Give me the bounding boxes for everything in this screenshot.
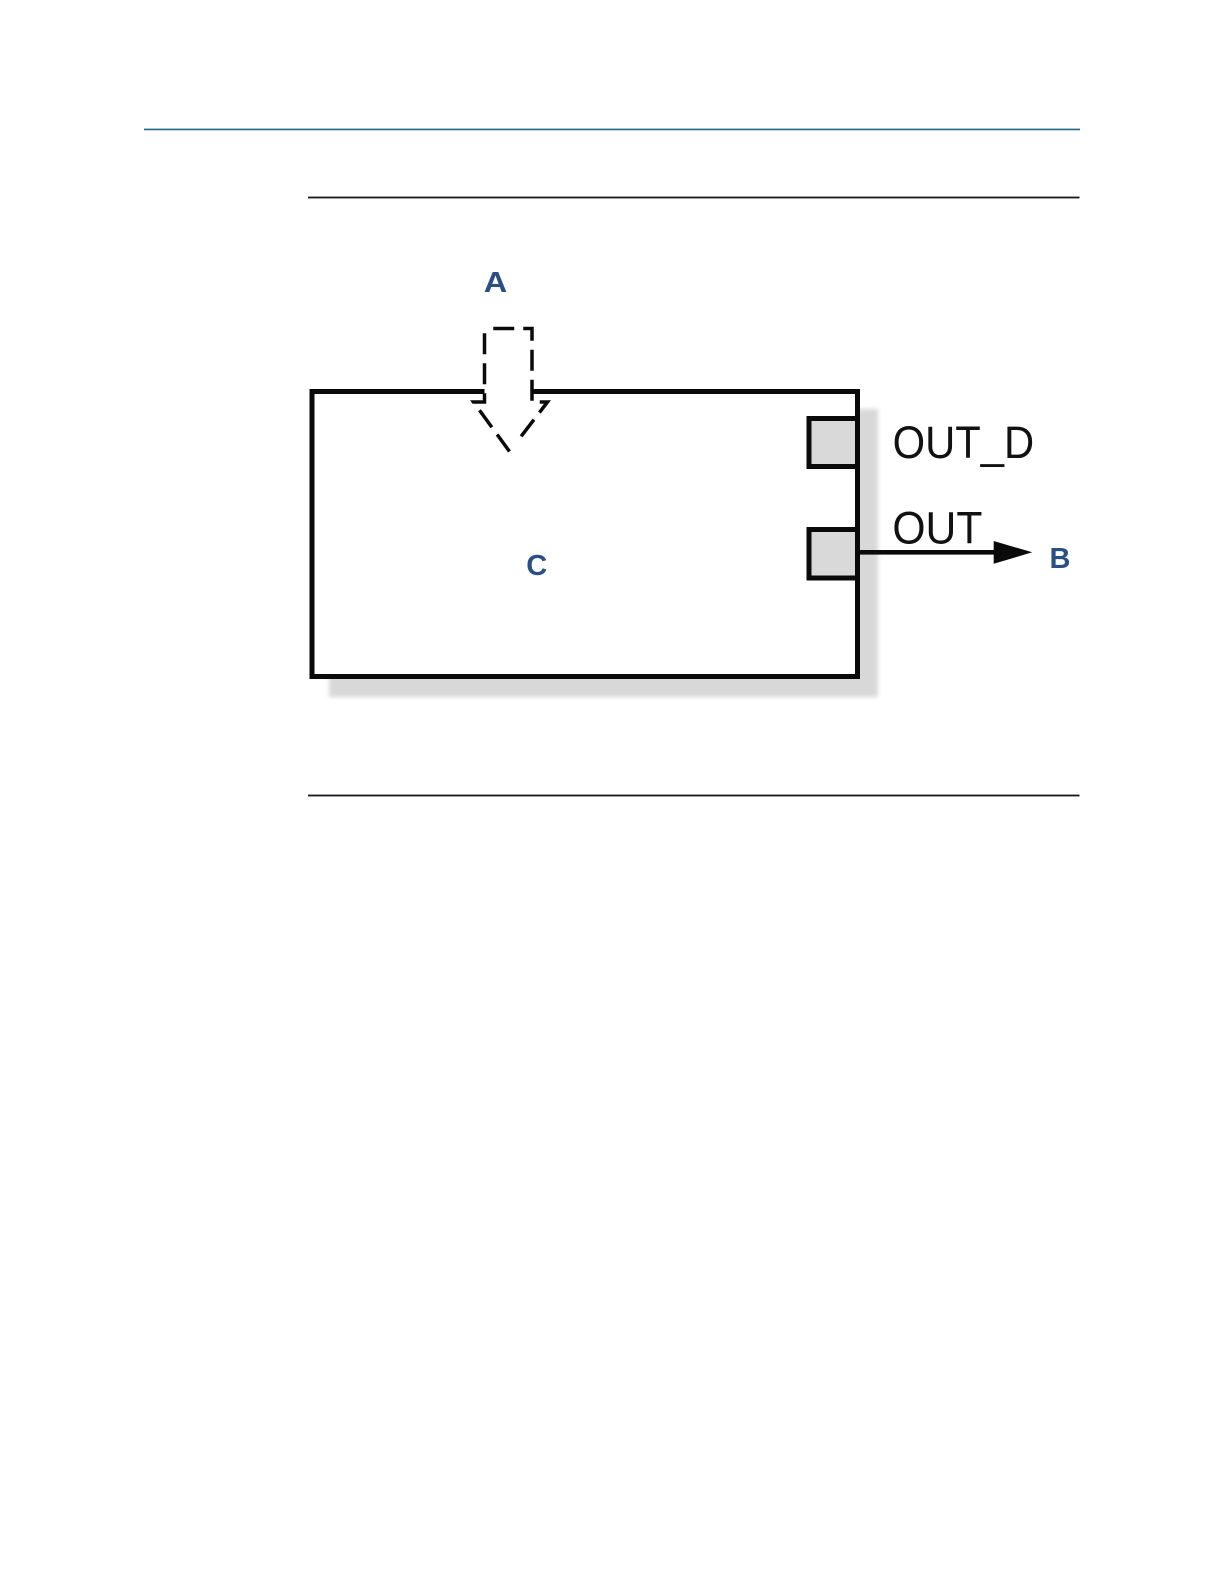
svg-text:A: A <box>484 267 508 299</box>
svg-text:C: C <box>526 550 547 582</box>
svg-text:B: B <box>1050 543 1071 575</box>
svg-text:OUT: OUT <box>892 503 982 554</box>
svg-text:OUT_D: OUT_D <box>893 417 1035 468</box>
